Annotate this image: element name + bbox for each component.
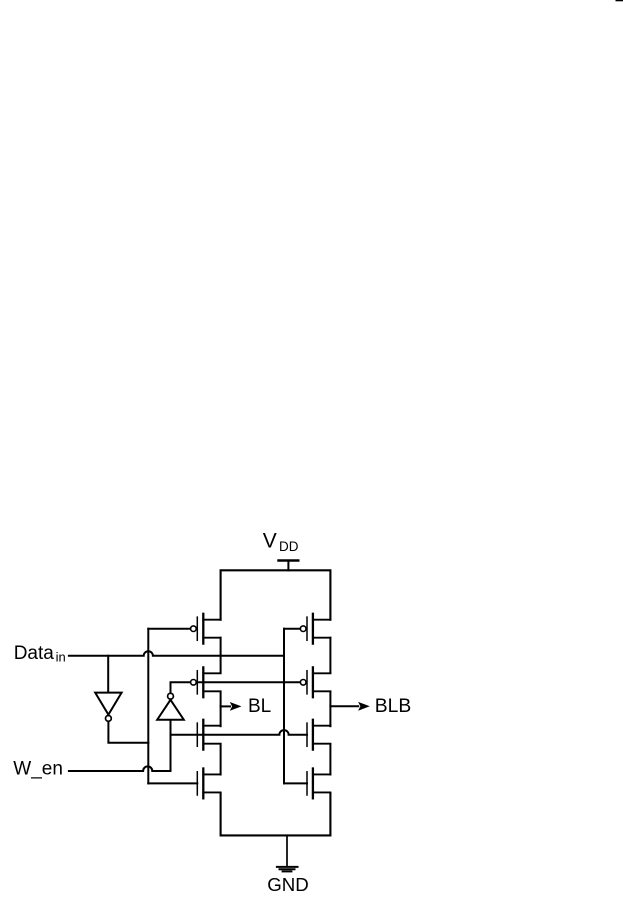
svg-text:Data: Data bbox=[14, 643, 55, 664]
svg-text:DD: DD bbox=[279, 539, 299, 554]
svg-text:in: in bbox=[56, 650, 66, 665]
svg-text:BLB: BLB bbox=[375, 696, 411, 717]
svg-text:BL: BL bbox=[248, 696, 271, 717]
svg-text:V: V bbox=[263, 529, 277, 552]
svg-text:GND: GND bbox=[267, 874, 309, 895]
svg-text:W_en: W_en bbox=[13, 758, 63, 779]
